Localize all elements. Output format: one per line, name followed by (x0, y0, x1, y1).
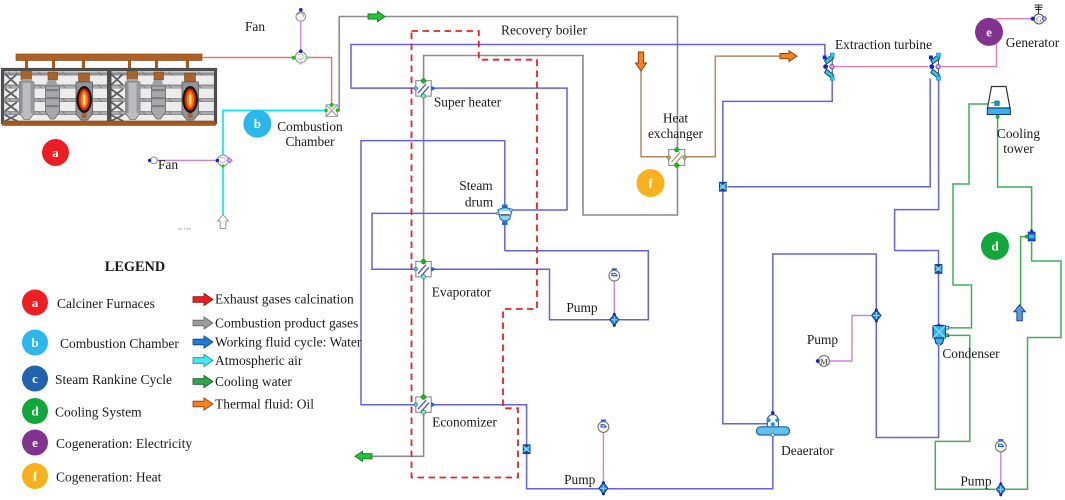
svg-text:a: a (52, 145, 59, 160)
svg-text:e: e (986, 24, 992, 39)
svg-text:Super heater: Super heater (434, 95, 502, 110)
svg-text:Steam: Steam (459, 178, 493, 193)
svg-text:Combustion Chamber: Combustion Chamber (60, 336, 179, 351)
svg-text:Chamber: Chamber (285, 134, 335, 149)
svg-text:b: b (254, 116, 261, 131)
svg-text:Working fluid cycle: Water: Working fluid cycle: Water (215, 335, 362, 350)
svg-text:Steam Rankine Cycle: Steam Rankine Cycle (55, 372, 172, 387)
svg-text:Pump: Pump (960, 474, 992, 489)
svg-text:Economizer: Economizer (432, 415, 497, 430)
svg-text:Cooling System: Cooling System (55, 405, 142, 420)
svg-text:d: d (991, 239, 999, 254)
svg-text:Pump: Pump (807, 332, 839, 347)
svg-text:Cooling: Cooling (997, 126, 1040, 141)
svg-text:M: M (820, 357, 828, 367)
svg-text:LEGEND: LEGEND (105, 259, 165, 275)
svg-text:Cooling water: Cooling water (215, 374, 292, 389)
svg-text:Thermal fluid: Oil: Thermal fluid: Oil (215, 397, 314, 412)
svg-text:drum: drum (465, 195, 494, 210)
svg-text:Calciner Furnaces: Calciner Furnaces (57, 296, 155, 311)
svg-text:e: e (32, 435, 38, 450)
svg-text:Combustion product gases: Combustion product gases (215, 316, 358, 331)
svg-text:c: c (32, 371, 38, 386)
svg-text:f: f (33, 469, 38, 484)
svg-text:Generator: Generator (1006, 35, 1060, 50)
svg-text:Pump: Pump (564, 472, 596, 487)
svg-text:f: f (648, 176, 653, 191)
svg-text:Extraction turbine: Extraction turbine (835, 37, 932, 52)
svg-text:Recovery boiler: Recovery boiler (501, 23, 587, 38)
svg-text:b: b (31, 335, 38, 350)
svg-text:a: a (32, 295, 39, 310)
svg-text:Fan: Fan (158, 157, 178, 172)
svg-text:Fan: Fan (245, 19, 265, 34)
svg-text:tower: tower (1003, 141, 1034, 156)
svg-text:Evaporator: Evaporator (432, 285, 492, 300)
svg-text:d: d (31, 404, 39, 419)
svg-text:Exhaust gases calcination: Exhaust gases calcination (215, 292, 354, 307)
svg-text:G: G (1036, 15, 1042, 24)
svg-text:Pump: Pump (566, 300, 598, 315)
svg-text:Deaerator: Deaerator (781, 443, 834, 458)
svg-text:ab-1-ine: ab-1-ine (178, 226, 192, 231)
svg-text:Condenser: Condenser (942, 346, 1000, 361)
svg-text:Atmospheric air: Atmospheric air (215, 353, 303, 368)
svg-text:exchanger: exchanger (648, 126, 704, 141)
svg-text:Cogeneration: Heat: Cogeneration: Heat (56, 470, 162, 485)
svg-text:Combustion: Combustion (277, 119, 343, 134)
svg-text:Heat: Heat (663, 111, 689, 126)
svg-text:Cogeneration: Electricity: Cogeneration: Electricity (56, 436, 192, 451)
